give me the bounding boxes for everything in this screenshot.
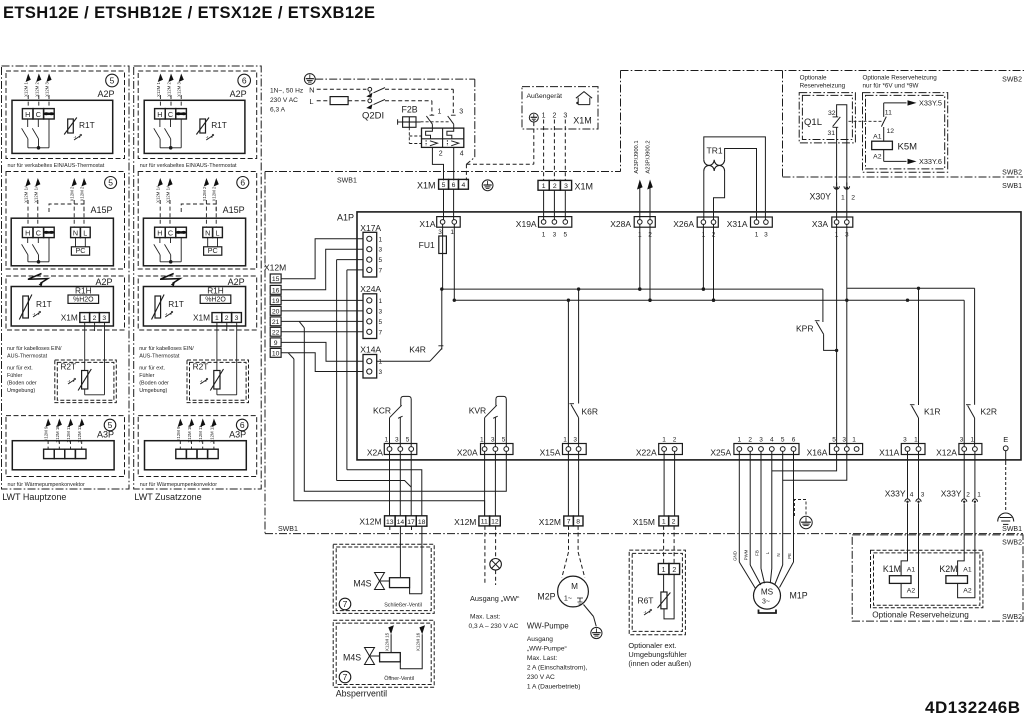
wires X25A down to pump M1P — [738, 451, 740, 562]
svg-text:X11A: X11A — [879, 448, 899, 458]
svg-text:SWB2: SWB2 — [1002, 540, 1022, 547]
thermistor R1T (A2P) — [200, 119, 206, 133]
svg-text:3: 3 — [921, 492, 925, 499]
svg-text:X12M: X12M — [539, 517, 561, 527]
inner box A15P — [143, 218, 245, 266]
svg-text:Schließer-Ventil: Schließer-Ventil — [384, 603, 422, 609]
svg-text:A23P/J900.1: A23P/J900.1 — [634, 140, 640, 173]
terminals N L A15P — [203, 227, 213, 237]
bus line 1 right segment (from X3A-3) — [847, 287, 975, 289]
wire L to contact 1 — [385, 100, 432, 102]
svg-text:A15P: A15P — [223, 205, 245, 215]
svg-text:X3A: X3A — [812, 219, 828, 229]
svg-text:ETSH12E / ETSHB12E / ETSX12E /: ETSH12E / ETSHB12E / ETSX12E / ETSXB12E — [3, 4, 375, 22]
svg-text:1: 1 — [662, 567, 666, 574]
callout circle (5) A2P — [106, 74, 119, 87]
svg-text:N: N — [309, 85, 314, 94]
inner box A2P — [12, 100, 113, 153]
svg-text:PWM: PWM — [744, 549, 749, 560]
svg-text:Optionaler ext.: Optionaler ext. — [628, 641, 676, 650]
svg-text:R2T: R2T — [60, 362, 76, 372]
svg-text:K2R: K2R — [981, 407, 998, 417]
svg-text:1: 1 — [480, 436, 484, 443]
optional heater box (bottom) — [852, 535, 1023, 621]
thermostat section A2P (wired) col5 — [6, 71, 125, 159]
contact K5M 11 12 — [884, 102, 907, 104]
svg-text:A1: A1 — [907, 567, 916, 574]
svg-text:4: 4 — [460, 151, 464, 158]
svg-text:F2B: F2B — [402, 105, 418, 115]
svg-text:2: 2 — [748, 436, 752, 443]
terminal X1M 1 2 3 (outdoor link) — [538, 180, 549, 190]
svg-text:1: 1 — [379, 236, 383, 243]
svg-text:10: 10 — [272, 351, 280, 358]
svg-text:3: 3 — [764, 232, 768, 239]
svg-text:0,3 A – 230 V AC: 0,3 A – 230 V AC — [469, 623, 519, 630]
svg-text:3: 3 — [379, 369, 383, 376]
svg-text:X12A: X12A — [936, 448, 957, 458]
svg-text:5: 5 — [108, 420, 113, 430]
svg-text:Max. Last:: Max. Last: — [527, 655, 558, 662]
svg-text:X26A: X26A — [673, 219, 694, 229]
dashed link inside A15P — [181, 204, 216, 212]
svg-text:3: 3 — [491, 436, 495, 443]
thermostat section A2P (wireless) col5 — [6, 276, 125, 330]
svg-text:Reserveheizung: Reserveheizung — [800, 82, 846, 89]
svg-text:N: N — [776, 553, 781, 556]
svg-text:1: 1 — [542, 113, 546, 120]
svg-text:2: 2 — [93, 315, 97, 322]
svg-text:Max. Last:: Max. Last: — [470, 614, 501, 621]
wire arrows into A3P — [46, 419, 51, 428]
wires X28A to buses — [639, 224, 641, 289]
svg-text:1: 1 — [450, 229, 454, 236]
svg-text:8: 8 — [576, 519, 580, 526]
wire X1A-1 to bus2 — [453, 224, 455, 300]
svg-text:M4S: M4S — [343, 653, 361, 663]
svg-text:1: 1 — [384, 436, 388, 443]
wires outdoor to X1M strip dashed — [533, 122, 535, 164]
svg-text:1: 1 — [83, 315, 87, 322]
svg-text:4: 4 — [770, 436, 774, 443]
wires X26A to buses — [702, 224, 704, 289]
svg-text:12: 12 — [887, 128, 895, 135]
svg-text:Außengerät: Außengerät — [527, 93, 563, 100]
svg-text:C: C — [168, 110, 173, 119]
svg-text:X17A: X17A — [360, 223, 381, 233]
svg-text:18: 18 — [418, 519, 426, 526]
svg-text:3: 3 — [395, 436, 399, 443]
svg-text:2: 2 — [225, 315, 229, 322]
svg-text:1: 1 — [737, 436, 741, 443]
svg-text:M: M — [571, 582, 578, 591]
switch contacts A2P — [27, 119, 29, 127]
svg-text:X12M 2: X12M 2 — [202, 186, 207, 201]
svg-text:32: 32 — [828, 110, 836, 117]
svg-text:5: 5 — [442, 182, 446, 189]
wire X12M20 to X24A-3 — [281, 310, 363, 312]
wire X3A-1 / X16A-5 column — [836, 224, 838, 446]
svg-text:5: 5 — [110, 76, 115, 86]
svg-text:Fühler: Fühler — [139, 373, 154, 379]
svg-text:3: 3 — [438, 229, 442, 236]
svg-text:3: 3 — [564, 183, 568, 190]
svg-text:X22A: X22A — [636, 448, 657, 458]
output WW lamp wires — [484, 526, 486, 585]
callout circle (7) opener valve — [339, 671, 351, 683]
earth dash-dot wire to X1M-4 and Aussengeraet — [315, 78, 475, 80]
wire X12M10 to X14A-3 — [281, 353, 363, 372]
svg-text:3~: 3~ — [762, 599, 770, 606]
feeder wire to X20A-5 (from X12M21) — [304, 328, 506, 491]
svg-text:nur für verkabeltes EIN/AUS-Th: nur für verkabeltes EIN/AUS-Thermostat — [140, 163, 237, 169]
svg-text:H: H — [25, 228, 30, 237]
pump switch and earth — [584, 605, 594, 617]
svg-text:A1P: A1P — [337, 213, 354, 223]
svg-text:13: 13 — [386, 519, 394, 526]
svg-text:A3P: A3P — [97, 430, 114, 440]
thermistor R1T (A2P) — [68, 119, 74, 133]
svg-text:X28A: X28A — [610, 219, 631, 229]
svg-text:C: C — [168, 228, 173, 237]
svg-text:K6R: K6R — [582, 407, 599, 417]
svg-text:AUS-Thermostat: AUS-Thermostat — [139, 354, 180, 360]
svg-text:X12M 2: X12M 2 — [167, 81, 172, 96]
thermistor R1T (wireless) — [23, 296, 29, 318]
wire arrows X12M refs into A2P — [158, 74, 163, 83]
PC box A15P — [204, 247, 222, 255]
svg-text:SWB1: SWB1 — [1002, 183, 1022, 190]
svg-text:A2: A2 — [963, 588, 972, 595]
svg-text:1: 1 — [841, 195, 845, 202]
ground symbol near X1M — [482, 180, 493, 191]
svg-text:7: 7 — [567, 519, 571, 526]
svg-text:6: 6 — [792, 436, 796, 443]
valve box Oeffner-Ventil — [333, 620, 434, 687]
wires X22A down to X15M 1 2 — [663, 451, 665, 516]
svg-text:2: 2 — [672, 567, 676, 574]
svg-text:R1T: R1T — [211, 120, 227, 130]
svg-text:6: 6 — [240, 178, 245, 188]
svg-text:1 A (Dauerbetrieb): 1 A (Dauerbetrieb) — [527, 684, 581, 691]
inner box A3P — [145, 441, 247, 470]
terminal cells A3P — [44, 449, 55, 458]
svg-text:nur für kabelloses EIN/: nur für kabelloses EIN/ — [139, 346, 194, 352]
svg-text:3: 3 — [573, 436, 577, 443]
breaker contact Q1L 32 31 — [837, 105, 847, 143]
zone box LWT Zusatzzone — [134, 66, 262, 489]
wires X15A down to X12M 7 8 — [567, 451, 569, 516]
svg-text:3: 3 — [960, 436, 964, 443]
switch contacts A15P — [159, 238, 161, 243]
callout circle (6) A2P — [238, 74, 251, 87]
heat pump convector section A3P col5 — [6, 416, 125, 477]
svg-text:KPR: KPR — [796, 324, 813, 334]
wire X12M22 to X24A-7 — [281, 331, 363, 333]
wires X11A X12A down to X33Y — [907, 451, 909, 498]
wireless link symbol — [160, 274, 180, 287]
wire X12M21 to X24A-5 — [281, 320, 363, 322]
svg-text:KCR: KCR — [373, 406, 391, 416]
svg-text:X12M 2: X12M 2 — [80, 186, 85, 201]
PC box A15P — [71, 247, 89, 255]
svg-text:R1T: R1T — [168, 299, 184, 309]
sensor R6T wires dashed — [663, 526, 665, 564]
svg-text:M1P: M1P — [790, 591, 808, 601]
svg-text:2: 2 — [673, 436, 677, 443]
callout circle (7) closer valve — [339, 598, 351, 610]
svg-text:X12M: X12M — [359, 517, 381, 527]
svg-text:2: 2 — [966, 492, 970, 499]
svg-text:1: 1 — [438, 109, 442, 116]
svg-text:C: C — [36, 228, 41, 237]
svg-text:AUS-Thermostat: AUS-Thermostat — [7, 354, 48, 360]
svg-text:6,3 A: 6,3 A — [270, 107, 286, 114]
svg-text:5: 5 — [406, 436, 410, 443]
svg-text:A2: A2 — [873, 154, 882, 161]
svg-text:X31A: X31A — [727, 219, 748, 229]
svg-text:21: 21 — [272, 319, 280, 326]
inner box A15P — [11, 218, 113, 266]
svg-text:nur für kabelloses EIN/: nur für kabelloses EIN/ — [7, 346, 62, 352]
thermostat section A2P (wireless) col6 — [138, 276, 257, 330]
svg-text:X12M 11: X12M 11 — [198, 425, 203, 442]
svg-text:Optionale Reserveheizung: Optionale Reserveheizung — [872, 611, 969, 620]
svg-text:1: 1 — [542, 183, 546, 190]
thermistor R1T (wireless) — [155, 296, 161, 318]
svg-text:SWB2: SWB2 — [1002, 614, 1022, 621]
svg-text:FU1: FU1 — [419, 240, 435, 250]
svg-text:X12M 9: X12M 9 — [176, 426, 181, 441]
svg-text:R1H: R1H — [75, 286, 92, 296]
svg-text:KVR: KVR — [469, 406, 486, 416]
svg-text:X24A: X24A — [360, 284, 381, 294]
terminals H C fan A2P — [22, 109, 33, 119]
svg-text:1: 1 — [563, 436, 567, 443]
stubs below X12M 13 17 — [389, 526, 391, 530]
svg-text:X12M 2: X12M 2 — [34, 81, 39, 96]
svg-text:X1M: X1M — [193, 313, 210, 323]
svg-text:3: 3 — [842, 436, 846, 443]
svg-text:Fühler: Fühler — [7, 373, 22, 379]
wires block to X1M 5 6 4 — [432, 147, 443, 180]
svg-text:K2M: K2M — [939, 564, 957, 574]
svg-text:A3P: A3P — [229, 430, 246, 440]
screen earth near pump — [795, 500, 807, 517]
svg-text:5: 5 — [108, 178, 113, 188]
svg-text:3: 3 — [235, 315, 239, 322]
overload relay block — [422, 128, 464, 147]
svg-text:3: 3 — [903, 436, 907, 443]
svg-text:X33Y.6: X33Y.6 — [919, 157, 942, 166]
switch contacts A2P — [159, 119, 161, 127]
terminal cells A3P — [176, 449, 187, 458]
svg-text:1: 1 — [662, 436, 666, 443]
svg-text:3: 3 — [379, 247, 383, 254]
svg-text:6: 6 — [452, 182, 456, 189]
svg-text:X1M: X1M — [61, 313, 78, 323]
svg-text:X33Y: X33Y — [885, 489, 906, 499]
svg-text:X1M: X1M — [573, 116, 592, 126]
svg-text:Q1L: Q1L — [804, 117, 822, 128]
svg-text:1: 1 — [914, 436, 918, 443]
svg-text:X15M: X15M — [633, 517, 655, 527]
svg-text:7: 7 — [379, 329, 383, 336]
svg-text:M4S: M4S — [353, 579, 371, 589]
dashed link inside A15P — [49, 204, 84, 212]
svg-text:Umgebung): Umgebung) — [139, 388, 167, 394]
wires X1M to R2T — [84, 322, 86, 370]
switch box SWB2 boundary (top right) — [621, 70, 1024, 72]
inner box A2P — [144, 100, 245, 153]
wireless link symbol — [28, 274, 48, 287]
svg-text:16: 16 — [272, 288, 280, 295]
svg-text:X14A: X14A — [360, 345, 381, 355]
wire N dashed — [317, 88, 367, 90]
svg-text:A1: A1 — [963, 567, 972, 574]
terminals H C fan A15P — [155, 227, 166, 237]
svg-text:14: 14 — [397, 519, 405, 526]
svg-text:X1M: X1M — [417, 181, 436, 191]
svg-text:4D132246B: 4D132246B — [925, 698, 1020, 715]
wire arrows into A3P — [178, 419, 183, 428]
svg-text:1: 1 — [215, 315, 219, 322]
svg-text:A23P/J900.2: A23P/J900.2 — [646, 140, 652, 173]
svg-text:A1: A1 — [873, 134, 882, 141]
svg-text:X15A: X15A — [540, 448, 561, 458]
svg-text:N: N — [73, 228, 78, 237]
svg-text:R2T: R2T — [193, 362, 209, 372]
svg-text:6: 6 — [240, 420, 245, 430]
wire arrows into A15P — [25, 178, 30, 187]
zone box LWT Hauptzone — [2, 66, 130, 489]
svg-text:SWB2: SWB2 — [1002, 77, 1022, 84]
svg-text:3: 3 — [459, 109, 463, 116]
svg-text:7: 7 — [379, 267, 383, 274]
svg-text:SWB2: SWB2 — [1002, 170, 1022, 177]
wires X12M 14 18 to Schliesser valve — [399, 526, 401, 578]
switch contacts A15P — [27, 238, 29, 243]
svg-text:K1R: K1R — [924, 407, 941, 417]
feeder wire to X12M11 (from X12M10) — [294, 359, 485, 516]
svg-text:X12M 16: X12M 16 — [416, 632, 421, 651]
svg-text:X12M 1: X12M 1 — [24, 81, 29, 96]
svg-text:3: 3 — [759, 436, 763, 443]
svg-text:TR1: TR1 — [707, 146, 723, 156]
svg-text:5: 5 — [502, 436, 506, 443]
svg-text:Optionale: Optionale — [800, 75, 827, 82]
svg-text:X25A: X25A — [710, 448, 731, 458]
svg-text:1: 1 — [977, 492, 981, 499]
svg-text:5: 5 — [379, 319, 383, 326]
svg-text:R1T: R1T — [79, 120, 95, 130]
svg-text:Ausgang „WW“: Ausgang „WW“ — [470, 594, 520, 603]
svg-text:3: 3 — [553, 232, 557, 239]
wire X12M19 to X24A-1 — [281, 299, 363, 301]
svg-text:X12M 12: X12M 12 — [77, 425, 82, 443]
svg-text:X20A: X20A — [457, 448, 478, 458]
svg-text:1: 1 — [379, 298, 383, 305]
receiver section A15P col6 — [138, 172, 257, 270]
svg-text:LWT Zusatzzone: LWT Zusatzzone — [134, 492, 201, 502]
svg-text:N: N — [205, 228, 210, 237]
sensor box R6T — [629, 550, 685, 635]
external sensor R2T col5 — [55, 360, 117, 403]
svg-text:H: H — [157, 110, 162, 119]
inner box A2P wireless — [11, 287, 113, 327]
svg-text:1: 1 — [970, 436, 974, 443]
callout circle (5) A15P — [105, 177, 117, 189]
svg-text:X1M: X1M — [575, 182, 594, 192]
svg-text:H: H — [157, 228, 162, 237]
svg-text:PC: PC — [76, 246, 86, 255]
svg-text:nur für *6V und *9W: nur für *6V und *9W — [863, 82, 919, 89]
svg-text:3: 3 — [563, 113, 567, 120]
svg-text:X16A: X16A — [807, 448, 828, 458]
bus line 2 (from X1A-1) — [454, 299, 964, 301]
svg-text:19: 19 — [272, 298, 280, 305]
svg-text:Umgebungsfühler: Umgebungsfühler — [628, 650, 687, 659]
wire X12M16 to X17A-3 — [281, 249, 363, 290]
external sensor R2T col6 — [187, 360, 249, 403]
svg-text:A2: A2 — [907, 588, 916, 595]
svg-text:12: 12 — [491, 519, 499, 526]
svg-text:X12M 12: X12M 12 — [209, 425, 214, 443]
svg-text:2: 2 — [439, 151, 443, 158]
svg-text:4: 4 — [910, 492, 914, 499]
terminals 1 2 R6T — [658, 564, 669, 575]
svg-text:1~: 1~ — [564, 594, 572, 603]
callout circle (6) A15P — [237, 177, 249, 189]
svg-text:A2P: A2P — [97, 89, 114, 99]
svg-text:X12M: X12M — [264, 263, 286, 273]
svg-text:(Boden oder: (Boden oder — [139, 381, 169, 387]
svg-text:11: 11 — [885, 110, 892, 117]
svg-text:Ausgang: Ausgang — [527, 636, 553, 643]
svg-text:SWB1: SWB1 — [337, 178, 357, 185]
svg-text:X12M 1: X12M 1 — [156, 81, 161, 96]
svg-text:PC: PC — [208, 246, 218, 255]
svg-text:3: 3 — [102, 315, 106, 322]
feeder column X17A-7 / X12M18 — [346, 270, 348, 470]
wire L dashed with line fuse — [317, 100, 330, 102]
svg-text:X12M 2: X12M 2 — [70, 186, 75, 201]
svg-text:5: 5 — [563, 232, 567, 239]
svg-text:20: 20 — [272, 309, 280, 316]
svg-text:4: 4 — [462, 182, 466, 189]
svg-text:15: 15 — [272, 276, 280, 283]
svg-text:7: 7 — [343, 672, 348, 682]
svg-text:%H2O: %H2O — [73, 297, 94, 304]
svg-text:„WW-Pumpe“: „WW-Pumpe“ — [527, 646, 567, 653]
earth symbol pump — [591, 627, 602, 638]
terminals H C fan A15P — [22, 227, 33, 237]
lamp symbol Ausgang WW — [490, 559, 502, 571]
svg-text:X12M 2: X12M 2 — [212, 186, 217, 201]
svg-text:2: 2 — [552, 113, 556, 120]
svg-text:X12M 3: X12M 3 — [45, 81, 50, 96]
wire X3A-3 / X16A-3 column — [846, 224, 848, 446]
svg-text:WW-Pumpe: WW-Pumpe — [527, 622, 569, 631]
outdoor unit box Aussengeraet — [522, 87, 598, 129]
svg-text:LWT Hauptzone: LWT Hauptzone — [2, 492, 66, 502]
svg-text:11: 11 — [481, 519, 488, 526]
feeder column X17A-5 / X12M17 — [336, 260, 338, 481]
svg-text:Optionale Reserveheizung: Optionale Reserveheizung — [863, 75, 938, 82]
svg-text:Absperrventil: Absperrventil — [336, 689, 387, 699]
svg-text:Q2DI: Q2DI — [362, 111, 384, 122]
svg-text:FB: FB — [754, 550, 759, 556]
